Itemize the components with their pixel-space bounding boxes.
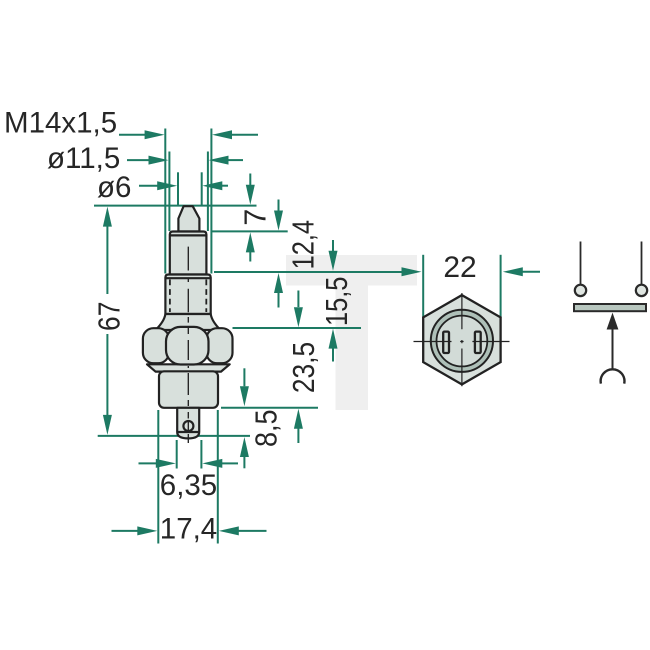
- svg-text:8,5: 8,5: [250, 409, 284, 446]
- svg-text:22: 22: [443, 251, 476, 284]
- svg-text:15,5: 15,5: [320, 277, 355, 326]
- svg-text:67: 67: [93, 302, 127, 331]
- svg-text:12,4: 12,4: [286, 220, 321, 269]
- svg-text:ø6: ø6: [97, 171, 131, 204]
- svg-text:M14x1,5: M14x1,5: [4, 107, 117, 140]
- svg-text:23,5: 23,5: [287, 342, 321, 393]
- svg-text:7: 7: [239, 209, 273, 226]
- svg-text:6,35: 6,35: [160, 469, 217, 502]
- svg-text:17,4: 17,4: [160, 513, 217, 546]
